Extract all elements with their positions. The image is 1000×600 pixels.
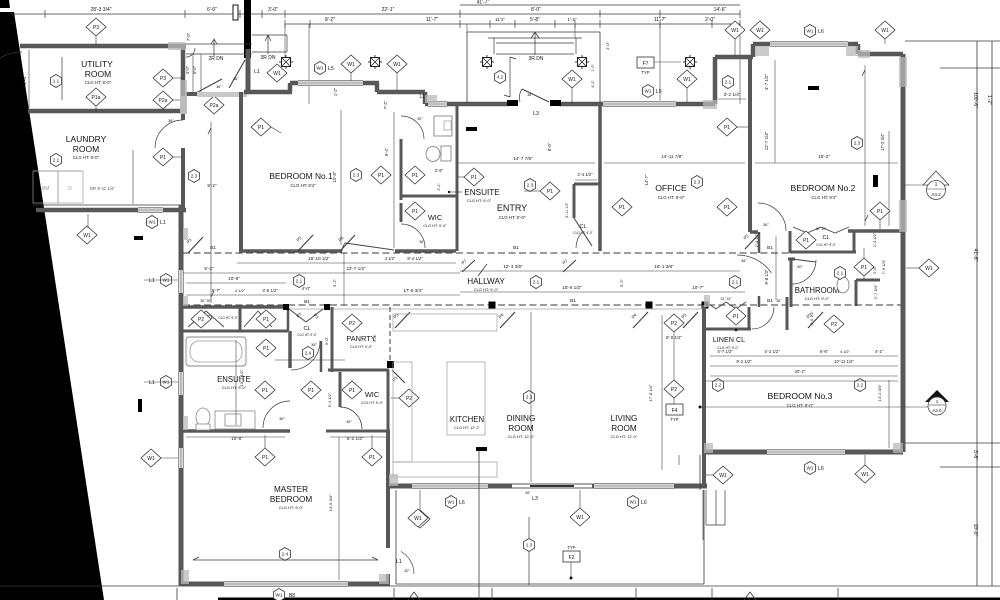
svg-text:P1: P1 <box>619 205 625 211</box>
svg-text:3'-8": 3'-8" <box>972 450 978 460</box>
svg-text:OFFICE: OFFICE <box>655 183 687 193</box>
svg-text:14'-6": 14'-6" <box>714 7 727 13</box>
svg-text:14'-9 3/4": 14'-9 3/4" <box>328 494 333 511</box>
svg-text:16'-1 3/8": 16'-1 3/8" <box>654 264 674 269</box>
svg-text:W1: W1 <box>807 466 814 471</box>
svg-text:15'-2": 15'-2" <box>818 154 830 159</box>
svg-text:KITCHEN: KITCHEN <box>450 415 484 424</box>
svg-text:P2: P2 <box>671 387 677 393</box>
svg-text:2.1: 2.1 <box>725 80 732 85</box>
svg-text:W1: W1 <box>881 28 889 34</box>
svg-text:BEDROOM No.1: BEDROOM No.1 <box>269 171 333 181</box>
svg-text:10'-0": 10'-0" <box>972 524 978 537</box>
svg-text:W1: W1 <box>317 66 324 71</box>
svg-text:W1: W1 <box>147 456 155 462</box>
svg-text:DR 9'-11 1/4": DR 9'-11 1/4" <box>90 186 115 191</box>
svg-text:P1: P1 <box>861 265 867 271</box>
svg-text:WM: WM <box>41 186 50 192</box>
svg-text:CLG HT: 9'-0": CLG HT: 9'-0" <box>423 224 447 228</box>
svg-text:L6: L6 <box>641 500 647 506</box>
svg-text:CLG HT: 12'-2": CLG HT: 12'-2" <box>454 425 481 430</box>
svg-text:CLG HT: 8'-0": CLG HT: 8'-0" <box>85 80 112 85</box>
svg-text:2.2: 2.2 <box>857 383 864 388</box>
svg-text:P1: P1 <box>378 173 384 179</box>
svg-text:6'-6": 6'-6" <box>820 349 829 354</box>
svg-text:W1: W1 <box>861 472 869 478</box>
svg-text:17'-6 3/4": 17'-6 3/4" <box>403 288 423 293</box>
svg-text:W1: W1 <box>683 77 691 83</box>
svg-text:14'-7 7/8": 14'-7 7/8" <box>513 156 533 161</box>
svg-text:30°: 30° <box>797 265 803 269</box>
svg-text:CLG HT: 12'-0": CLG HT: 12'-0" <box>508 434 535 439</box>
svg-text:L1: L1 <box>149 278 155 284</box>
svg-text:P1: P1 <box>369 455 375 461</box>
svg-text:36°: 36° <box>346 420 352 424</box>
svg-text:P1: P1 <box>877 209 883 215</box>
svg-text:2.3: 2.3 <box>526 395 533 400</box>
svg-text:10'-11 1/2": 10'-11 1/2" <box>834 359 854 364</box>
svg-text:8'-4 1/2": 8'-4 1/2" <box>407 256 423 261</box>
svg-text:B1: B1 <box>513 245 519 251</box>
svg-text:36°: 36° <box>168 119 174 123</box>
svg-text:2.4: 2.4 <box>282 552 289 557</box>
svg-text:P1: P1 <box>547 189 553 195</box>
svg-text:L1: L1 <box>254 69 260 75</box>
svg-text:8'-0": 8'-0" <box>531 7 541 13</box>
svg-text:LIVING: LIVING <box>611 414 638 423</box>
svg-text:66": 66" <box>526 491 532 495</box>
svg-text:P2: P2 <box>831 322 837 328</box>
svg-text:2'-8": 2'-8" <box>435 168 444 173</box>
svg-text:L3: L3 <box>533 111 539 117</box>
svg-text:CL: CL <box>822 235 829 241</box>
svg-text:W1: W1 <box>807 29 814 34</box>
svg-text:15'-6 1/2": 15'-6 1/2" <box>562 285 582 290</box>
svg-text:3'-2 1/4": 3'-2 1/4" <box>724 92 741 97</box>
svg-text:W1: W1 <box>576 515 584 521</box>
svg-text:2.1: 2.1 <box>53 158 60 163</box>
svg-text:6'-1 1/2": 6'-1 1/2" <box>327 392 332 407</box>
svg-text:30° 30°: 30° 30° <box>816 227 827 231</box>
svg-text:CLG HT: 9'4": CLG HT: 9'4" <box>290 183 316 188</box>
svg-text:5'-2": 5'-2" <box>204 266 214 271</box>
svg-text:1.3: 1.3 <box>526 543 533 548</box>
svg-text:P1: P1 <box>258 125 264 131</box>
svg-text:PANRTY: PANRTY <box>346 334 375 343</box>
svg-text:6'-7": 6'-7" <box>212 288 221 293</box>
svg-text:W1: W1 <box>719 473 727 479</box>
svg-text:W1: W1 <box>347 62 355 68</box>
svg-text:LAUNDRY: LAUNDRY <box>66 134 107 144</box>
svg-text:2.3: 2.3 <box>353 173 360 178</box>
svg-text:A4.2: A4.2 <box>931 192 941 197</box>
svg-text:14'-7": 14'-7" <box>644 174 649 185</box>
svg-text:28'-3 3/4": 28'-3 3/4" <box>90 7 111 13</box>
svg-text:W1: W1 <box>83 233 91 239</box>
svg-text:P1: P1 <box>263 317 269 323</box>
svg-text:CL: CL <box>579 224 586 230</box>
svg-text:P1: P1 <box>262 455 268 461</box>
svg-text:8'-0": 8'-0" <box>547 142 552 151</box>
svg-text:10'-1 1/2": 10'-1 1/2" <box>239 369 244 386</box>
svg-text:CLG HT: 9'-0": CLG HT: 9'-0" <box>499 215 526 220</box>
svg-text:36°: 36° <box>419 240 425 244</box>
svg-text:4'-2": 4'-2" <box>591 80 595 88</box>
svg-text:ENTRY: ENTRY <box>497 203 527 213</box>
svg-text:CLG HT: 9'4": CLG HT: 9'4" <box>811 195 837 200</box>
svg-text:12'-7 1/4": 12'-7 1/4" <box>764 131 769 150</box>
svg-text:2R DN: 2R DN <box>208 56 223 62</box>
svg-text:30°: 30° <box>417 117 423 121</box>
svg-text:ROOM: ROOM <box>73 144 99 154</box>
svg-text:MASTER: MASTER <box>274 485 308 494</box>
svg-text:W1: W1 <box>756 28 764 34</box>
svg-text:L1: L1 <box>160 220 166 226</box>
svg-text:2.1: 2.1 <box>732 280 739 285</box>
svg-text:4'-7 1/2": 4'-7 1/2" <box>717 349 733 354</box>
svg-text:2'-4": 2'-4" <box>437 183 441 191</box>
svg-text:24" 24": 24" 24" <box>721 297 733 301</box>
svg-text:2.1: 2.1 <box>296 279 303 284</box>
svg-text:41'-7": 41'-7" <box>477 0 490 6</box>
svg-text:L1: L1 <box>419 94 425 100</box>
svg-text:CLG HT: 9'-0": CLG HT: 9'-0" <box>658 195 685 200</box>
svg-text:BEDROOM No.3: BEDROOM No.3 <box>768 391 833 401</box>
svg-text:5'-3": 5'-3" <box>373 334 377 342</box>
svg-text:A4.0: A4.0 <box>932 408 942 413</box>
svg-text:6'-0": 6'-0" <box>22 75 28 85</box>
svg-text:7'-2": 7'-2" <box>383 100 388 109</box>
svg-text:17'-2 3/4": 17'-2 3/4" <box>880 133 885 151</box>
svg-text:L1: L1 <box>396 559 402 565</box>
svg-text:11'-7": 11'-7" <box>654 17 667 23</box>
svg-text:36°: 36° <box>741 259 747 263</box>
svg-text:CLG HT: 9'-0": CLG HT: 9'-0" <box>474 287 499 292</box>
svg-text:CLG HT: 9'-0": CLG HT: 9'-0" <box>816 243 835 247</box>
svg-text:30° 30°: 30° 30° <box>200 299 212 303</box>
svg-text:P3: P3 <box>93 25 99 31</box>
svg-text:P1: P1 <box>471 175 477 181</box>
svg-text:ROOM: ROOM <box>508 424 534 433</box>
svg-text:2.4: 2.4 <box>305 351 312 356</box>
svg-text:B1: B1 <box>570 298 576 304</box>
svg-text:4.2: 4.2 <box>497 75 504 80</box>
svg-text:1'-2": 1'-2" <box>567 17 577 22</box>
svg-text:CL: CL <box>303 326 310 332</box>
svg-text:P1a: P1a <box>92 95 101 101</box>
svg-text:L5: L5 <box>656 89 662 95</box>
svg-text:4'-7 1/2": 4'-7 1/2" <box>764 74 769 91</box>
svg-text:P1: P1 <box>724 205 730 211</box>
svg-text:10'-8": 10'-8" <box>228 276 240 281</box>
svg-text:P2a: P2a <box>159 98 168 104</box>
svg-text:B1: B1 <box>304 299 310 305</box>
svg-text:14'-11 7/8": 14'-11 7/8" <box>661 154 683 159</box>
svg-text:W1: W1 <box>393 62 401 68</box>
svg-text:2.1: 2.1 <box>837 271 844 276</box>
svg-text:2.3: 2.3 <box>527 183 534 188</box>
svg-text:HALLWAY: HALLWAY <box>467 277 505 286</box>
svg-text:L3: L3 <box>532 496 538 502</box>
svg-text:W1: W1 <box>925 266 933 272</box>
svg-text:W1: W1 <box>645 89 652 94</box>
svg-text:B8: B8 <box>289 593 295 599</box>
svg-text:TYP: TYP <box>670 417 678 422</box>
svg-text:2'-4 1/2": 2'-4 1/2" <box>872 232 877 247</box>
svg-text:17'-8 1/4": 17'-8 1/4" <box>648 384 653 401</box>
svg-text:W1: W1 <box>273 71 281 77</box>
svg-text:D: D <box>68 186 72 192</box>
svg-text:P2: P2 <box>349 321 355 327</box>
svg-text:1.1: 1.1 <box>53 79 60 84</box>
svg-text:2'-0": 2'-0" <box>705 17 715 23</box>
svg-text:W1: W1 <box>630 500 637 505</box>
svg-text:W1: W1 <box>276 593 283 598</box>
svg-text:9'-2 1/2": 9'-2 1/2" <box>736 359 752 364</box>
svg-text:L1: L1 <box>149 380 155 386</box>
svg-text:WIC: WIC <box>365 390 380 399</box>
svg-text:2.3: 2.3 <box>854 141 861 146</box>
svg-text:F2: F2 <box>569 555 575 561</box>
svg-text:3'-6 1/2": 3'-6 1/2" <box>262 288 278 293</box>
svg-text:6'-0": 6'-0" <box>324 336 329 345</box>
svg-text:4 1/2": 4 1/2" <box>840 350 850 354</box>
svg-text:DINING: DINING <box>507 414 536 423</box>
svg-text:7'-6 1/4": 7'-6 1/4" <box>881 259 886 274</box>
svg-text:B1: B1 <box>767 245 773 251</box>
svg-text:P1: P1 <box>733 314 739 320</box>
svg-text:12'-3 3/8": 12'-3 3/8" <box>503 264 523 269</box>
svg-text:CLG HT: 9'-0": CLG HT: 9'-0" <box>73 155 100 160</box>
svg-text:TYP: TYP <box>567 545 575 550</box>
svg-text:14'-2 3/4": 14'-2 3/4" <box>877 384 882 401</box>
svg-text:W1: W1 <box>568 77 576 83</box>
svg-text:1: 1 <box>935 182 938 188</box>
svg-text:1'-2": 1'-2" <box>333 87 338 96</box>
svg-text:P2a: P2a <box>210 103 219 109</box>
svg-text:9'-8 1/2": 9'-8 1/2" <box>764 269 769 285</box>
svg-text:BEDROOM No.2: BEDROOM No.2 <box>791 183 856 193</box>
svg-text:L6: L6 <box>459 500 465 506</box>
svg-text:P1: P1 <box>803 238 809 244</box>
svg-text:LINEN CL: LINEN CL <box>713 335 745 344</box>
svg-text:P1: P1 <box>160 155 166 161</box>
svg-text:ENSUITE: ENSUITE <box>217 375 251 384</box>
svg-text:9'-2": 9'-2" <box>332 278 337 287</box>
svg-text:3R DN: 3R DN <box>528 56 543 62</box>
svg-text:2.3: 2.3 <box>694 180 701 185</box>
svg-text:1'-0": 1'-0" <box>591 64 595 72</box>
svg-text:30°: 30° <box>404 569 410 573</box>
svg-text:3R DN: 3R DN <box>260 55 275 61</box>
svg-text:P1: P1 <box>262 388 268 394</box>
svg-text:B1: B1 <box>767 298 773 304</box>
svg-text:ROOM: ROOM <box>85 69 111 79</box>
svg-text:ROOM: ROOM <box>611 424 637 433</box>
svg-text:36°: 36° <box>776 299 782 303</box>
svg-text:36°: 36° <box>527 93 533 97</box>
svg-text:BEDROOM: BEDROOM <box>270 495 312 504</box>
svg-text:W1: W1 <box>448 500 455 505</box>
svg-text:P3: P3 <box>160 76 166 82</box>
svg-text:16'-10 1/2": 16'-10 1/2" <box>308 256 330 261</box>
svg-text:CLG HT: 9'-0": CLG HT: 9'-0" <box>573 231 592 235</box>
svg-text:P1: P1 <box>263 346 269 352</box>
svg-text:5'-2": 5'-2" <box>207 183 217 188</box>
svg-text:5'-11 1/2": 5'-11 1/2" <box>565 201 569 217</box>
svg-text:4 1/2": 4 1/2" <box>385 256 396 261</box>
svg-text:CLG HT: 9'-0": CLG HT: 9'-0" <box>805 296 830 301</box>
svg-text:W1: W1 <box>414 516 422 522</box>
svg-text:3'-0": 3'-0" <box>268 7 278 13</box>
svg-text:L6: L6 <box>818 29 824 35</box>
svg-text:P1: P1 <box>349 388 355 394</box>
svg-text:36°: 36° <box>216 85 222 89</box>
svg-text:4'-2 1/2": 4'-2 1/2" <box>764 349 780 354</box>
svg-text:2.2: 2.2 <box>715 383 722 388</box>
svg-text:11'-7": 11'-7" <box>426 17 439 23</box>
svg-text:2'-0 1/4": 2'-0 1/4" <box>810 310 814 325</box>
svg-text:CLG HT: 9'-0": CLG HT: 9'-0" <box>279 505 304 510</box>
svg-text:P1: P1 <box>412 173 418 179</box>
svg-text:CLG HT: 12'-0": CLG HT: 12'-0" <box>611 434 638 439</box>
svg-text:1: 1 <box>936 399 939 404</box>
svg-text:22'-7 1/2": 22'-7 1/2" <box>346 266 366 271</box>
svg-text:P2: P2 <box>406 396 412 402</box>
svg-text:F7: F7 <box>643 61 649 67</box>
svg-text:2'-7 3/4": 2'-7 3/4" <box>873 284 878 299</box>
svg-text:P1: P1 <box>412 209 418 215</box>
svg-text:F4: F4 <box>672 408 678 414</box>
svg-text:1'-2": 1'-2" <box>986 95 992 105</box>
svg-text:36°: 36° <box>279 417 285 421</box>
svg-text:41'-8": 41'-8" <box>972 249 978 262</box>
svg-text:4 1/2": 4 1/2" <box>235 288 246 293</box>
svg-text:CLG HT: 9'-0": CLG HT: 9'-0" <box>361 401 384 405</box>
svg-text:L5: L5 <box>328 66 334 72</box>
svg-text:UTILITY: UTILITY <box>81 59 113 69</box>
svg-text:22'-1": 22'-1" <box>382 7 395 13</box>
svg-text:5'-2": 5'-2" <box>619 278 624 287</box>
svg-text:B1: B1 <box>210 245 216 251</box>
svg-text:15'-8": 15'-8" <box>332 171 337 182</box>
svg-text:P2: P2 <box>671 321 677 327</box>
svg-text:WIC: WIC <box>428 213 443 222</box>
svg-text:4'-0": 4'-0" <box>302 286 311 291</box>
svg-text:CLG HT: 9'-0": CLG HT: 9'-0" <box>467 198 492 203</box>
svg-text:P1: P1 <box>308 388 314 394</box>
svg-text:ENSUITE: ENSUITE <box>464 188 500 197</box>
svg-text:7'-0": 7'-0" <box>186 32 191 41</box>
svg-text:CLG HT: 9'-0": CLG HT: 9'-0" <box>297 333 316 337</box>
svg-text:11'1": 11'1" <box>495 17 505 22</box>
svg-text:100'-6": 100'-6" <box>972 92 978 108</box>
svg-text:4'-1": 4'-1" <box>875 349 884 354</box>
svg-text:TYP: TYP <box>641 70 649 75</box>
svg-text:2'-4 1/2": 2'-4 1/2" <box>577 172 593 177</box>
svg-text:W1: W1 <box>731 28 739 34</box>
svg-text:2'-0": 2'-0" <box>605 41 610 50</box>
svg-text:CLG HT: 9'-0": CLG HT: 9'-0" <box>218 316 237 320</box>
svg-text:4'-0": 4'-0" <box>185 65 190 74</box>
svg-text:P1: P1 <box>724 125 730 131</box>
svg-text:10'-7": 10'-7" <box>692 285 704 290</box>
svg-text:BATHROOM: BATHROOM <box>795 286 839 295</box>
svg-text:9'-4": 9'-4" <box>384 147 389 156</box>
svg-text:20'-2": 20'-2" <box>795 369 806 374</box>
svg-text:W1: W1 <box>149 220 156 225</box>
svg-text:36°: 36° <box>233 77 239 81</box>
svg-text:L6: L6 <box>818 466 824 472</box>
svg-text:36°: 36° <box>311 343 317 347</box>
svg-text:CLG HT: 9'-0": CLG HT: 9'-0" <box>350 345 373 349</box>
svg-text:36°: 36° <box>763 223 769 227</box>
svg-text:2.3: 2.3 <box>191 174 198 179</box>
svg-text:P2: P2 <box>198 317 204 323</box>
svg-text:8'-2": 8'-2" <box>325 17 335 23</box>
svg-text:6'-0": 6'-0" <box>207 7 217 13</box>
svg-text:2.1: 2.1 <box>533 280 540 285</box>
svg-text:5'-8": 5'-8" <box>530 17 540 23</box>
